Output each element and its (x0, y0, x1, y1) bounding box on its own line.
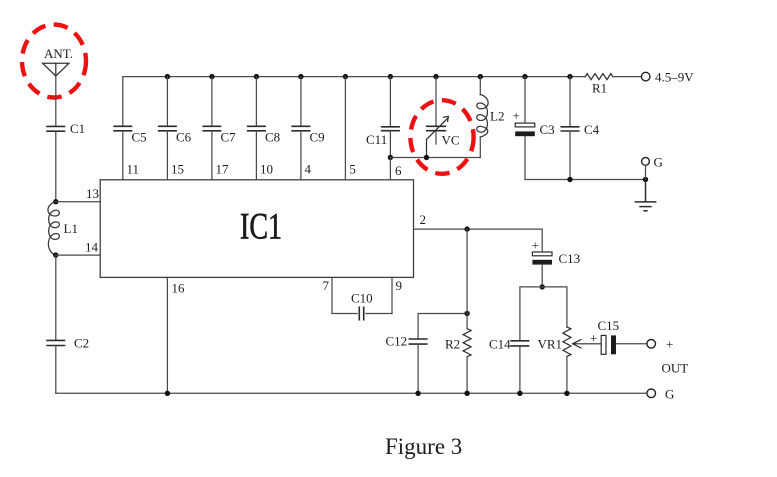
junction VC bottom (424, 155, 429, 160)
VC lower stub (435, 131, 437, 144)
junction on rail at C3 (522, 74, 527, 79)
svg-text:C10: C10 (351, 291, 373, 306)
wire pin 9 (391, 277, 393, 313)
C12 top wire from bracket (418, 314, 467, 340)
svg-text:C6: C6 (176, 130, 192, 145)
wire C11 to node below (389, 131, 391, 158)
wire rail to C7 (211, 77, 213, 127)
wire pin 16 (166, 277, 168, 393)
svg-text:14: 14 (85, 240, 99, 255)
svg-text:C9: C9 (310, 130, 325, 145)
wire C4 to mid rail (569, 131, 571, 180)
svg-text:7: 7 (323, 278, 330, 293)
svg-text:C4: C4 (584, 122, 600, 137)
svg-text:11: 11 (127, 162, 140, 177)
wire C6 to pin 15 (166, 131, 168, 180)
capacitor C9 (291, 126, 310, 131)
wire C14 to bottom rail (519, 346, 521, 393)
wire C5 to pin 11 (122, 131, 124, 180)
bottom ground rail (56, 392, 647, 394)
svg-text:VC: VC (442, 133, 460, 148)
wire rail to pin 5 (344, 77, 346, 180)
svg-text:C11: C11 (366, 132, 387, 147)
red dashed highlight ellipse around antenna (22, 25, 86, 98)
junction on rail at pin5 wire (343, 74, 348, 79)
antenna ANT. symbol (43, 63, 69, 76)
svg-text:6: 6 (395, 163, 402, 178)
junction pin2/R2 (464, 226, 469, 231)
svg-text:+: + (532, 238, 539, 253)
inductor L1 (48, 202, 59, 255)
wire C10 bracket (332, 313, 357, 315)
capacitor C8 (247, 126, 266, 131)
wire C3 to mid rail (524, 136, 526, 179)
svg-text:R2: R2 (445, 337, 460, 352)
top supply rail wire (123, 77, 586, 127)
wire rail to C4 (569, 77, 571, 127)
junction on rail at C11 (388, 74, 393, 79)
svg-text:C3: C3 (540, 122, 555, 137)
junction on rail at C4 (567, 74, 572, 79)
electrolytic capacitor C13 (532, 252, 552, 265)
junction on rail at C7 (209, 74, 214, 79)
svg-text:G: G (665, 387, 674, 402)
junction R2 at y313 (464, 311, 469, 316)
wire pin 13 (56, 201, 100, 203)
capacitor C5 (113, 126, 132, 131)
capacitor C2 (46, 340, 65, 345)
svg-text:10: 10 (260, 162, 273, 177)
svg-text:15: 15 (171, 162, 184, 177)
red dashed highlight circle around VC (410, 100, 473, 174)
svg-text:16: 16 (172, 281, 186, 296)
capacitor C7 (202, 126, 221, 131)
wire pin 7 (331, 277, 333, 313)
terminal OUT plus (647, 340, 656, 349)
mid ground rail (525, 179, 646, 181)
capacitor C11 (381, 127, 400, 131)
junction mid rail at C4 (567, 177, 572, 182)
junction bottom rail VR1 (564, 391, 569, 396)
capacitor C4 (561, 127, 580, 131)
junction mid rail at ground (643, 177, 648, 182)
inductor L2 (477, 95, 488, 138)
wire rail to C9 (300, 77, 302, 127)
junction C13 bottom (540, 284, 545, 289)
ground symbol (635, 180, 657, 211)
junction on rail at C6 (165, 74, 170, 79)
svg-text:VR1: VR1 (538, 337, 563, 352)
wire C2 to bottom rail (55, 346, 57, 394)
svg-text:13: 13 (86, 186, 99, 201)
resistor R2 (463, 329, 471, 357)
potentiometer VR1 (563, 327, 571, 356)
svg-text:C12: C12 (386, 334, 408, 349)
svg-text:IC1: IC1 (240, 207, 282, 248)
svg-text:Figure 3: Figure 3 (385, 434, 462, 459)
svg-text:5: 5 (349, 162, 356, 177)
svg-text:L2: L2 (490, 109, 504, 124)
wire rail to C3 (524, 77, 526, 124)
electrolytic capacitor C3 (515, 123, 535, 136)
svg-text:C2: C2 (74, 336, 89, 351)
wire R2 to bottom rail (466, 357, 468, 394)
svg-text:L1: L1 (64, 221, 78, 236)
wire C1 to node 13 (55, 131, 57, 202)
wire G terminal to rail (645, 165, 647, 179)
svg-text:4: 4 (305, 162, 312, 177)
svg-text:+: + (513, 108, 520, 123)
svg-text:ANT.: ANT. (44, 46, 73, 61)
junction on rail at C8 (254, 74, 259, 79)
VC arrow (427, 116, 449, 157)
svg-text:C13: C13 (559, 251, 581, 266)
wire node row to L2 bottom (390, 157, 480, 159)
wire VR1 to bottom rail (566, 356, 568, 393)
wire C13 to bracket node (541, 265, 543, 287)
junction on rail at C9 (298, 74, 303, 79)
wire bracket C14/VR1 (520, 287, 567, 341)
svg-text:OUT: OUT (662, 361, 689, 376)
svg-text:C14: C14 (489, 337, 511, 352)
svg-text:C5: C5 (132, 130, 147, 145)
wire rail to C8 (255, 77, 257, 127)
svg-text:+: + (666, 337, 673, 352)
electrolytic capacitor C15 (601, 335, 616, 354)
wire pin2 node down to C13 (541, 229, 543, 252)
svg-text:C1: C1 (70, 121, 85, 136)
wire C7 to pin 17 (211, 131, 213, 180)
svg-text:G: G (654, 155, 663, 170)
svg-text:4.5–9V: 4.5–9V (655, 70, 694, 85)
wire rail to C6 (166, 77, 168, 127)
VR1 wiper arrow (573, 340, 601, 348)
wire node 14 to C2 (55, 255, 57, 340)
junction on rail at VC (433, 74, 438, 79)
wire pin 2 (414, 228, 543, 230)
capacitor C6 (158, 126, 177, 131)
wire C9 to pin 4 (300, 131, 302, 180)
wire C8 to pin 10 (255, 131, 257, 180)
wire R1 to supply terminal (613, 76, 642, 78)
wire node to pin 6 (389, 158, 391, 180)
junction bottom rail C14 (517, 391, 522, 396)
svg-text:C7: C7 (221, 130, 237, 145)
svg-text:9: 9 (396, 278, 403, 293)
junction bottom rail C12 (415, 391, 420, 396)
capacitor C14 (510, 341, 529, 346)
capacitor C10 (359, 307, 363, 321)
variable capacitor VC (426, 126, 446, 130)
wire C12 to bottom rail (417, 344, 419, 393)
svg-text:C15: C15 (598, 318, 620, 333)
node 14 junction (53, 252, 58, 257)
terminal G upper (642, 158, 650, 166)
wire C15 to OUT terminal (616, 343, 647, 345)
capacitor C12 (409, 339, 428, 344)
svg-text:R1: R1 (592, 81, 607, 96)
wire rail to VC (435, 77, 437, 127)
resistor R1 (585, 74, 612, 80)
wire pin 14 (56, 254, 100, 256)
svg-text:+: + (590, 331, 597, 346)
wire rail to C11 (389, 77, 391, 127)
junction on rail at L2 (478, 74, 483, 79)
capacitor C1 (46, 126, 65, 131)
wire rail to L2 (479, 77, 481, 95)
terminal 4.5-9V (641, 72, 650, 81)
junction bottom rail pin16 (165, 391, 170, 396)
wire L2 bottom (479, 137, 481, 158)
junction bottom rail R2 (464, 391, 469, 396)
wire antenna to C1 (55, 76, 57, 126)
terminal G lower (647, 389, 656, 398)
IC1 body (100, 180, 413, 278)
svg-text:C8: C8 (265, 130, 280, 145)
node 13 junction (53, 199, 58, 204)
svg-text:17: 17 (216, 162, 230, 177)
svg-text:2: 2 (420, 212, 427, 227)
junction C11/VC node (388, 155, 393, 160)
wire R2 column top (466, 229, 468, 329)
